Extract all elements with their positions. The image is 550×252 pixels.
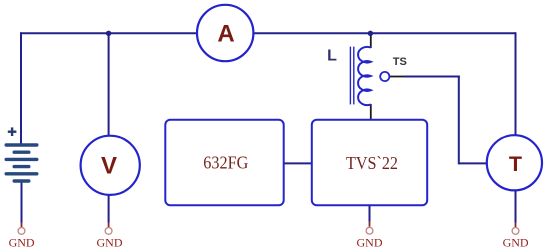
svg-text:V: V xyxy=(101,153,117,180)
voltmeter V circle xyxy=(81,136,140,195)
box TVS`22 xyxy=(312,120,427,206)
wire: battery ground pin (red tip) xyxy=(21,223,23,228)
node: junction at voltmeter branch xyxy=(106,31,111,36)
svg-text:TS: TS xyxy=(393,56,407,68)
ammeter A circle xyxy=(197,5,253,61)
wire: left vertical from top bus to battery xyxy=(20,32,22,144)
wire: voltmeter ground pin (red tip) xyxy=(108,223,110,228)
box 632FG xyxy=(165,120,283,206)
svg-text:GND: GND xyxy=(357,236,383,249)
wire: top horizontal bus xyxy=(20,32,516,34)
wire: TS terminal black stub xyxy=(390,76,406,78)
inductor L coil xyxy=(358,47,371,105)
inductor L core bars xyxy=(349,47,351,105)
wire: connector between 632FG and TVS boxes xyxy=(283,162,313,164)
wire: right vertical from top bus to T meter xyxy=(515,32,517,137)
svg-text:L: L xyxy=(327,47,337,64)
svg-text:632FG: 632FG xyxy=(203,153,248,173)
wire: TVS bottom to ground xyxy=(369,205,371,222)
svg-text:GND: GND xyxy=(503,236,529,249)
wire: voltmeter branch down from junction xyxy=(108,33,110,136)
terminal TS circle xyxy=(380,72,389,81)
ground terminal circle (T meter) xyxy=(512,228,519,235)
svg-text:GND: GND xyxy=(97,236,123,249)
wire: T meter ground pin (red tip) xyxy=(515,223,517,228)
wire: TVS ground pin (red tip) xyxy=(369,222,371,227)
ground terminal circle (battery) xyxy=(18,228,25,235)
ground terminal circle (voltmeter) xyxy=(105,228,112,235)
svg-text:T: T xyxy=(509,152,522,176)
thermometer T circle xyxy=(487,135,542,190)
wire: voltmeter bottom to ground xyxy=(108,195,110,223)
battery BT1 plates xyxy=(5,143,39,182)
wire: TS horizontal run to right xyxy=(405,76,460,78)
wire: inductor top black pin xyxy=(370,34,372,48)
wire: TS vertical run down xyxy=(458,76,460,165)
wire: T meter bottom to ground xyxy=(515,191,517,223)
ground terminal circle (TVS) xyxy=(366,227,373,234)
svg-text:A: A xyxy=(217,21,234,48)
svg-text:GND: GND xyxy=(9,236,35,249)
wire: inductor bottom black pin xyxy=(370,104,372,120)
wire: into T meter left xyxy=(459,162,487,164)
node: junction at inductor branch xyxy=(368,31,373,36)
battery BT1 plus sign xyxy=(8,127,17,136)
svg-text:TVS`22: TVS`22 xyxy=(346,153,398,173)
wire: battery bottom to ground xyxy=(21,182,23,223)
